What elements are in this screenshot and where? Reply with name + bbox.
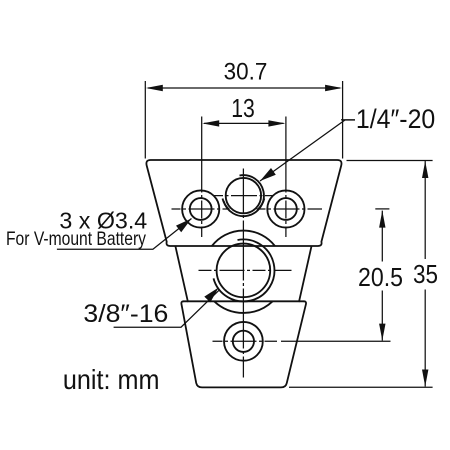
- extension line 20.5 top: [375, 208, 389, 210]
- centerline vertical right hole / 13 extension: [285, 117, 287, 238]
- arrowhead 35 down: [422, 370, 428, 387]
- counterbore circle left hole: [182, 190, 219, 227]
- hole left inner circle: [190, 198, 212, 220]
- leader line 3xO3.4 underline: [57, 219, 192, 250]
- hole right inner circle: [275, 198, 297, 220]
- dimension line 35 lower: [424, 290, 426, 387]
- dimension line 20.5 lower: [381, 291, 383, 341]
- hole bottom inner circle: [233, 331, 254, 352]
- dimension line 20.5 upper: [381, 211, 383, 262]
- extension line 30.7 left: [144, 81, 146, 159]
- 3/8-16 tapped hole minor circle: [217, 244, 271, 298]
- leader line 1/4-20: [260, 120, 355, 181]
- centerline vertical left hole / 13 extension: [201, 117, 203, 238]
- extension line 35 top: [347, 160, 433, 162]
- fillet neck left: [223, 199, 230, 210]
- svg-text:20.5: 20.5: [358, 262, 403, 292]
- centerline horizontal top hole: [214, 195, 274, 197]
- extension line 30.7 right: [342, 81, 344, 159]
- svg-text:35: 35: [413, 259, 438, 289]
- boss arc below big hole: [214, 301, 272, 313]
- centerline vertical main: [242, 169, 244, 378]
- fillet neck right: [258, 199, 265, 210]
- arrowhead 13 left: [202, 120, 219, 126]
- svg-text:3/8″-16: 3/8″-16: [83, 300, 168, 328]
- arrowhead leader 1/4-20: [260, 168, 276, 181]
- arrowhead leader 3/8-16: [204, 288, 218, 303]
- counterbore circle bottom hole: [224, 322, 263, 361]
- dimension line 13: [204, 122, 284, 124]
- centerline horizontal left hole: [172, 208, 230, 210]
- body lower step line: [184, 300, 305, 302]
- centerline horizontal right hole: [257, 208, 323, 210]
- dimension line 30.7: [148, 87, 340, 89]
- centerline horizontal big hole: [199, 269, 292, 271]
- centerline horizontal bottom hole: [213, 340, 278, 342]
- 3/8-16 tapped hole major thread arc: [214, 239, 275, 301]
- svg-text:30.7: 30.7: [224, 59, 268, 86]
- arrowhead 20.5 down: [379, 324, 385, 341]
- body middle-left edge: [176, 247, 188, 302]
- svg-text:13: 13: [231, 95, 255, 123]
- body bottom trapezoid outline: [181, 301, 306, 387]
- svg-text:For V-mount Battery: For V-mount Battery: [6, 229, 146, 250]
- svg-text:1/4″-20: 1/4″-20: [356, 104, 435, 134]
- svg-text:unit: mm: unit: mm: [63, 364, 160, 395]
- arrowhead 13 right: [268, 120, 285, 126]
- extension line bottom hole to 20.5: [281, 340, 391, 342]
- arrowhead 30.7 left: [146, 85, 163, 91]
- counterbore circle right hole: [267, 190, 304, 227]
- body upper trapezoid outline: [146, 160, 341, 246]
- body middle-right edge: [299, 247, 311, 302]
- dimension line 35 upper: [424, 161, 426, 259]
- arrowhead leader 3xO3.4: [176, 219, 192, 233]
- 1/4-20 tapped hole major thread arc: [224, 175, 264, 216]
- arrowhead 20.5 up: [379, 211, 385, 228]
- 1/4-20 tapped hole minor circle: [226, 178, 261, 213]
- extension line 35 bottom: [289, 386, 433, 388]
- leader line 3/8-16 underline: [114, 290, 220, 327]
- arrowhead 35 up: [422, 161, 428, 178]
- arrowhead 30.7 right: [325, 85, 342, 91]
- boss arc above big hole: [212, 231, 275, 246]
